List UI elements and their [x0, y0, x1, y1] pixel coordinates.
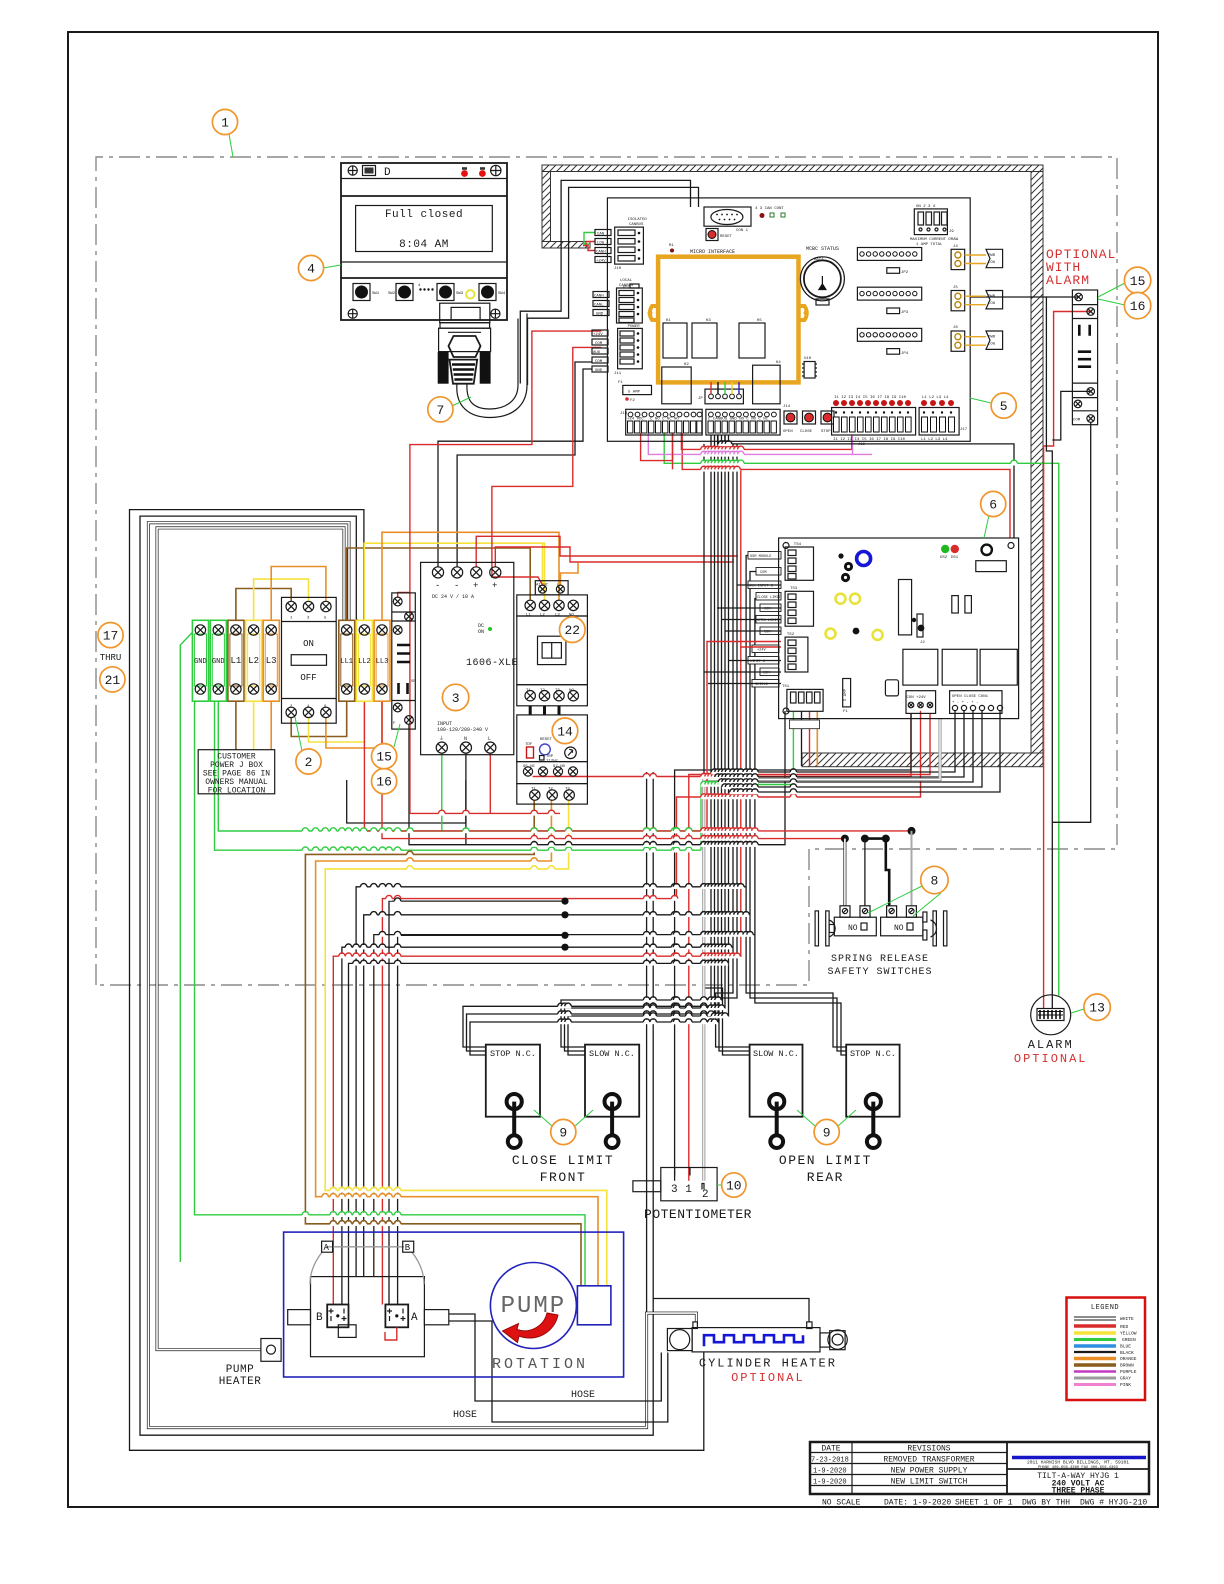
- svg-text:A1 NC: A1 NC: [536, 584, 549, 588]
- svg-text:1-9-2020: 1-9-2020: [813, 1479, 847, 1487]
- hatch band bottom: [802, 753, 1043, 767]
- junction dots: [561, 898, 568, 951]
- svg-text:BROWN: BROWN: [1120, 1363, 1134, 1369]
- wire black: [675, 713, 911, 1181]
- control panel 4: [341, 163, 507, 320]
- customer power J box label: [198, 750, 275, 796]
- svg-text:F2: F2: [630, 399, 635, 403]
- dip switch top right: [914, 209, 947, 235]
- wire black: [349, 963, 729, 1304]
- svg-text:ORANGE: ORANGE: [1120, 1356, 1137, 1362]
- svg-text:N: N: [464, 736, 467, 742]
- svg-text:SW3: SW3: [456, 292, 464, 296]
- callout circles: [98, 109, 1151, 1197]
- svg-text:10: 10: [726, 1179, 742, 1194]
- wire black: [704, 671, 781, 673]
- callout 8: [921, 866, 948, 893]
- svg-text:ROTATION: ROTATION: [492, 1356, 588, 1373]
- svg-text:J17: J17: [960, 428, 968, 432]
- wire black: [449, 1321, 668, 1422]
- svg-text:U10: U10: [804, 357, 812, 361]
- svg-text:PWR: PWR: [988, 336, 996, 340]
- svg-text:15: 15: [376, 750, 392, 765]
- svg-text:J4: J4: [953, 245, 958, 249]
- svg-text:CLOSE: CLOSE: [800, 430, 813, 434]
- svg-text:COM: COM: [595, 342, 603, 346]
- svg-text:T1: T1: [531, 788, 536, 792]
- svg-text:6: 6: [989, 498, 997, 513]
- svg-text:NEW POWER SUPPLY: NEW POWER SUPPLY: [891, 1467, 968, 1476]
- svg-text:95 NC: 95 NC: [523, 765, 536, 769]
- overload T1T2T3 down to pump motor: [305, 800, 581, 1286]
- svg-text:OPTIONAL: OPTIONAL: [731, 1371, 805, 1385]
- battery: [800, 257, 844, 301]
- svg-text:PWR: PWR: [988, 254, 996, 258]
- callout 10: [722, 1173, 746, 1197]
- callout 15: [1124, 267, 1150, 293]
- svg-text:STOP N.C.: STOP N.C.: [850, 1049, 896, 1059]
- svg-text:JP: JP: [698, 397, 703, 401]
- hoses: [449, 1314, 662, 1401]
- 5 AMP fuse: [623, 385, 652, 394]
- spring switch wires: [908, 827, 916, 835]
- wire red: [533, 713, 911, 777]
- svg-text:R1: R1: [669, 244, 674, 248]
- wire: [157, 528, 346, 1350]
- svg-text:ISOLATED: ISOLATED: [628, 218, 648, 222]
- svg-text:A: A: [411, 1312, 418, 1324]
- svg-text:97 NO: 97 NO: [553, 765, 566, 769]
- svg-text:THRU: THRU: [100, 653, 122, 663]
- supply N to bus: [465, 753, 467, 845]
- svg-text:YELLOW: YELLOW: [1120, 1331, 1137, 1337]
- LL tops to contactor 22: [347, 548, 531, 625]
- title block: [810, 1442, 1149, 1508]
- callout 15: [372, 744, 397, 769]
- svg-text:CANH: CANH: [594, 294, 604, 298]
- wire black: [467, 435, 715, 1051]
- svg-text:D: D: [384, 167, 391, 179]
- wire black: [718, 711, 973, 782]
- svg-text:TS3: TS3: [790, 587, 798, 591]
- green wires: [195, 692, 586, 1286]
- svg-text:GND: GND: [212, 658, 225, 666]
- wire black: [389, 901, 565, 1304]
- wire black: [729, 660, 782, 662]
- svg-text:STOP: STOP: [821, 430, 831, 434]
- svg-text:SLOW N.C.: SLOW N.C.: [753, 1049, 799, 1059]
- wire yellow: [309, 694, 365, 742]
- svg-text:BLACK: BLACK: [1120, 1350, 1134, 1356]
- svg-text:GND: GND: [595, 369, 603, 373]
- LCD screen: [356, 206, 493, 252]
- mounts left: [815, 911, 818, 946]
- solenoid A: [385, 1305, 408, 1328]
- svg-text:CON 1: CON 1: [736, 229, 749, 233]
- bottom terminal strip 4: [919, 396, 968, 442]
- TS2 block: [785, 637, 808, 672]
- svg-text:DS1: DS1: [951, 556, 959, 560]
- wire white: [157, 528, 346, 1350]
- svg-text:T3: T3: [555, 689, 560, 693]
- callout 1: [212, 109, 237, 134]
- wire black: [1046, 296, 1078, 298]
- U10: [804, 362, 815, 379]
- callout 7: [428, 397, 453, 422]
- A/B tags top: [322, 1241, 333, 1252]
- wire orange: [326, 694, 382, 748]
- wire black: [716, 444, 750, 1047]
- callout 2: [296, 749, 321, 774]
- wire red: [689, 713, 930, 1181]
- svg-text:J10: J10: [614, 267, 622, 271]
- svg-text:LOG: LOG: [988, 343, 996, 347]
- svg-text:COM: COM: [595, 360, 603, 364]
- svg-text:5 AMP: 5 AMP: [628, 390, 641, 394]
- wire green: [441, 753, 443, 831]
- svg-text:LOG: LOG: [988, 261, 996, 265]
- wire green: [700, 785, 702, 851]
- svg-text:K1: K1: [666, 319, 671, 323]
- wire black: [719, 444, 750, 1051]
- potentiometer: [633, 1168, 752, 1223]
- L2: [246, 620, 262, 701]
- svg-text:DATE: DATE: [821, 1445, 840, 1454]
- wire black: [737, 584, 781, 586]
- svg-text:COM: COM: [760, 571, 766, 575]
- motor connector blue box: [577, 1286, 611, 1325]
- svg-text:16: 16: [1130, 299, 1146, 314]
- svg-text:HOSE: HOSE: [571, 1390, 595, 1401]
- wire red: [364, 694, 911, 831]
- svg-text:NO SCALE: NO SCALE: [822, 1499, 861, 1508]
- callout 4: [298, 255, 323, 280]
- wire green: [180, 624, 200, 1262]
- wire black: [864, 839, 866, 906]
- svg-text:BLUE: BLUE: [1120, 1344, 1131, 1350]
- svg-text:4: 4: [307, 262, 315, 277]
- svg-text:L2: L2: [248, 656, 259, 666]
- 24VDC output reds: [476, 536, 737, 567]
- svg-text:CANBUS: CANBUS: [629, 223, 644, 227]
- callout 16: [1124, 292, 1150, 318]
- svg-text:17: 17: [103, 629, 119, 644]
- wire orange: [316, 800, 598, 1286]
- hatch band top: [542, 165, 1043, 172]
- wire red: [382, 694, 845, 839]
- wire green: [584, 233, 595, 245]
- svg-text:K2: K2: [684, 363, 689, 367]
- svg-text:HOSE: HOSE: [453, 1410, 477, 1421]
- svg-text:C CANBUS GND NO C NO C NC: C CANBUS GND NO C NO C NC: [708, 418, 769, 422]
- close limit front: slow: [585, 1045, 639, 1117]
- wire black: [708, 683, 781, 685]
- wire black: [750, 572, 846, 1052]
- wire red: [410, 812, 560, 814]
- svg-text:T3: T3: [565, 788, 570, 792]
- serial cable wires panel->PCB5: [520, 180, 690, 383]
- mounts right: [923, 912, 927, 922]
- wire yellow: [254, 579, 309, 625]
- svg-text:2: 2: [702, 1189, 709, 1201]
- svg-text:SP: SP: [411, 680, 416, 684]
- svg-text:DC 24 V / 10 A: DC 24 V / 10 A: [432, 594, 474, 600]
- open limit rear: stop: [846, 1045, 899, 1117]
- svg-text:3: 3: [452, 691, 460, 706]
- svg-text:B: B: [405, 1243, 411, 1253]
- wire black: [565, 435, 726, 1051]
- overload relay 14: [517, 715, 588, 804]
- svg-text:NO: NO: [894, 924, 904, 933]
- wire red: [586, 242, 595, 246]
- wire black: [470, 435, 718, 1055]
- PCB5 bottom misc: [718, 435, 1014, 538]
- wire black: [755, 599, 846, 1056]
- wire black: [364, 915, 750, 1277]
- svg-text:NO: NO: [848, 924, 858, 933]
- wire white: [148, 523, 696, 1428]
- hatch band left: [542, 172, 551, 242]
- wire orange: [382, 532, 559, 625]
- GND terminal 1: [192, 620, 208, 701]
- svg-text:L: L: [488, 736, 491, 742]
- svg-text:SPRING RELEASE: SPRING RELEASE: [831, 954, 929, 965]
- svg-text:CANH: CANH: [596, 250, 606, 254]
- wire black: [715, 711, 965, 777]
- wire orange: [560, 563, 578, 585]
- callout 6: [981, 491, 1006, 516]
- svg-text:SHEET 1 OF 1: SHEET 1 OF 1: [955, 1499, 1013, 1508]
- svg-text:K5: K5: [757, 319, 762, 323]
- wire yellow: [364, 543, 544, 625]
- svg-text:CANL: CANL: [594, 303, 604, 307]
- switch 1: [834, 917, 876, 936]
- wire red: [382, 711, 920, 1305]
- svg-text:ALARM: ALARM: [1028, 1038, 1074, 1052]
- wire black: [347, 780, 466, 823]
- svg-text:JP4: JP4: [901, 352, 909, 356]
- wire black: [725, 630, 781, 632]
- reset button: [706, 229, 718, 241]
- left big loop black wires: [130, 510, 704, 1451]
- callout 9: [551, 1119, 576, 1144]
- wire white: [843, 839, 846, 906]
- wire black: [342, 947, 733, 1304]
- wire black: [140, 516, 809, 1435]
- svg-text:B: B: [316, 1312, 323, 1324]
- wire orange: [816, 711, 818, 766]
- disconnect switch 2: [282, 597, 337, 723]
- valve body: [311, 1277, 425, 1357]
- svg-text:21: 21: [105, 673, 121, 688]
- svg-text:ALARM: ALARM: [1046, 273, 1090, 288]
- switch 2: [881, 917, 923, 936]
- svg-text:-: -: [435, 581, 440, 591]
- relay/alarm wires right side: [970, 297, 1052, 1008]
- svg-text:OPEN: OPEN: [783, 430, 793, 434]
- wire black: [398, 935, 565, 1304]
- callout 17: [98, 623, 123, 648]
- svg-text:LOG: LOG: [988, 302, 996, 306]
- red wires: [410, 331, 601, 813]
- svg-text:8: 8: [930, 874, 938, 889]
- svg-text:1: 1: [221, 116, 229, 131]
- svg-text:TS2: TS2: [787, 633, 795, 637]
- svg-text:BAT1: BAT1: [814, 258, 824, 262]
- svg-text:REAR: REAR: [807, 1170, 844, 1185]
- buttons: [353, 284, 506, 301]
- bottom terminal strip 1: [620, 409, 702, 435]
- svg-text:100-120/200-240 V: 100-120/200-240 V: [437, 727, 488, 733]
- svg-text:LL2: LL2: [358, 658, 371, 666]
- wire red: [333, 433, 741, 1305]
- svg-text:REVISIONS: REVISIONS: [907, 1445, 950, 1454]
- svg-text:RESET: RESET: [720, 235, 733, 239]
- svg-text:CAN: CAN: [597, 232, 605, 236]
- svg-text:L1 L2 L3 L4: L1 L2 L3 L4: [922, 396, 949, 400]
- svg-text:J2: J2: [920, 641, 925, 645]
- wire red: [641, 433, 673, 461]
- wire: [148, 523, 696, 1428]
- svg-text:9: 9: [559, 1126, 567, 1141]
- wire black: [746, 556, 846, 1048]
- svg-text:I1 I2 I3 I4 I5 I6 I7 I8 I9 I10: I1 I2 I3 I4 I5 I6 I7 I8 I9 I10: [834, 396, 907, 400]
- pump circle: [490, 1263, 576, 1349]
- staircase from CON1 to bundle: [711, 711, 955, 772]
- svg-text:AUX: AUX: [593, 351, 601, 355]
- L3: [263, 620, 279, 701]
- callout 5: [991, 393, 1016, 418]
- svg-text:JP1: JP1: [622, 286, 630, 290]
- wire red: [741, 469, 1010, 538]
- svg-text:REMOVED TRANSFORMER: REMOVED TRANSFORMER: [883, 1456, 974, 1465]
- wire green: [218, 694, 701, 831]
- limit switches: [486, 1045, 900, 1185]
- relays: [903, 649, 938, 685]
- svg-text:FOR LOCATION: FOR LOCATION: [208, 787, 266, 796]
- svg-text:NO: NO: [569, 689, 574, 693]
- svg-text:J9: J9: [949, 230, 954, 234]
- bottom terminal strip 3 with red LEDs: [832, 396, 916, 447]
- svg-text:22: 22: [564, 623, 580, 638]
- L1 L2 L3 bottoms to customer box: [235, 694, 237, 750]
- purple strip1->strip3: [648, 433, 852, 454]
- svg-text:⏚: ⏚: [439, 735, 444, 742]
- svg-text:ON: ON: [478, 629, 484, 635]
- hatch band left foot: [542, 242, 590, 249]
- wire black: [561, 435, 722, 1047]
- alarm (optional): [1014, 995, 1088, 1066]
- svg-text:PWR: PWR: [988, 295, 996, 299]
- svg-text:J11: J11: [614, 372, 622, 376]
- wire black: [1052, 422, 1090, 822]
- cylinder heater: [667, 1322, 847, 1385]
- spring release safety switches: [815, 906, 947, 978]
- breaker 15/16: [392, 593, 417, 729]
- GND terminal 2: [210, 620, 226, 701]
- svg-text:PUMP: PUMP: [226, 1364, 254, 1376]
- serial connector 7 (DB9 + cable): [438, 303, 527, 417]
- pump assembly: [219, 1232, 624, 1388]
- svg-text:14: 14: [557, 724, 573, 739]
- svg-text:F1: F1: [618, 381, 623, 385]
- wire red: [809, 711, 811, 766]
- svg-text:PINK: PINK: [1120, 1382, 1131, 1388]
- callout 9: [814, 1119, 839, 1144]
- disconnect bottom to LL bottoms: [291, 694, 347, 736]
- svg-text:J14: J14: [783, 405, 791, 409]
- svg-text:Full closed: Full closed: [385, 209, 463, 221]
- svg-text:PHONE 406-656-4360 FAX 406-656: PHONE 406-656-4360 FAX 406-656-4363: [1038, 1466, 1118, 1470]
- svg-text:OPEN LIMIT: OPEN LIMIT: [779, 1153, 872, 1168]
- wire red: [583, 246, 595, 251]
- svg-text:7-23-2018: 7-23-2018: [811, 1457, 849, 1465]
- wire black: [722, 711, 983, 787]
- L1: [228, 620, 244, 701]
- svg-text:LOCAL: LOCAL: [620, 279, 633, 283]
- long red under PCB5 to PCB6: [672, 433, 674, 469]
- svg-text:RED: RED: [1120, 1324, 1129, 1330]
- svg-text:1 AMP TOTAL: 1 AMP TOTAL: [916, 243, 943, 247]
- svg-text:NEW LIMIT SWITCH: NEW LIMIT SWITCH: [891, 1478, 968, 1487]
- svg-text:+24V: +24V: [757, 649, 766, 653]
- svg-text:LL1: LL1: [340, 658, 353, 666]
- svg-text:GREEN: GREEN: [1122, 1337, 1136, 1343]
- svg-text:1-9-2020: 1-9-2020: [813, 1468, 847, 1476]
- svg-text:L3: L3: [266, 656, 277, 666]
- svg-text:STOP N.C.: STOP N.C.: [490, 1049, 536, 1059]
- svg-text:15: 15: [1130, 274, 1146, 289]
- svg-text:SW2: SW2: [388, 292, 396, 296]
- svg-text:+: +: [473, 581, 478, 591]
- wire red: [681, 433, 851, 449]
- svg-text:-: -: [454, 581, 459, 591]
- svg-text:SAFETY SWITCHES: SAFETY SWITCHES: [827, 967, 932, 978]
- svg-text:GRAY: GRAY: [1120, 1376, 1131, 1382]
- svg-text:K3: K3: [706, 319, 711, 323]
- wire gray: [911, 831, 913, 906]
- callout 22: [560, 617, 586, 643]
- wire red: [492, 347, 601, 585]
- svg-text:MICRO INTERFACE: MICRO INTERFACE: [690, 249, 735, 255]
- black N-S bundle (PCB5/PCB6 to limit switches): [463, 435, 711, 1047]
- open limit rear: slow: [750, 1045, 803, 1117]
- svg-text:F1: F1: [843, 710, 848, 714]
- svg-text:LL3: LL3: [376, 658, 389, 666]
- power supply DC feed: [438, 369, 592, 567]
- right edge 2-pin connectors + PWR LOG modules: [951, 245, 1003, 351]
- wire black: [646, 772, 648, 1313]
- svg-text:CLOSE LIMIT: CLOSE LIMIT: [757, 596, 782, 600]
- wire black: [528, 187, 699, 385]
- svg-text:L1 L2 L3 L4: L1 L2 L3 L4: [921, 438, 948, 442]
- svg-text:I1 I2 I3 I4 I5 I6 I7 I8 I9 I10: I1 I2 I3 I4 I5 I6 I7 I8 I9 I10: [833, 438, 906, 442]
- callout 16: [372, 769, 397, 794]
- PCB6 left wire tags: [748, 552, 782, 688]
- bottom terminal strip 2: [706, 409, 780, 435]
- wire black: [374, 935, 755, 1277]
- pump heater: [261, 1339, 281, 1362]
- svg-text:POTENTIOMETER: POTENTIOMETER: [644, 1207, 752, 1222]
- svg-text:MAXIMUM CURRENT DRAW: MAXIMUM CURRENT DRAW: [910, 238, 959, 242]
- svg-text:DS2: DS2: [940, 556, 948, 560]
- callout 14: [552, 718, 578, 744]
- wire red: [495, 547, 733, 567]
- svg-text:TRP: TRP: [546, 755, 554, 759]
- svg-text:2: 2: [305, 755, 313, 770]
- svg-text:CYLINDER HEATER: CYLINDER HEATER: [699, 1357, 837, 1371]
- svg-text:HEATER: HEATER: [219, 1376, 262, 1388]
